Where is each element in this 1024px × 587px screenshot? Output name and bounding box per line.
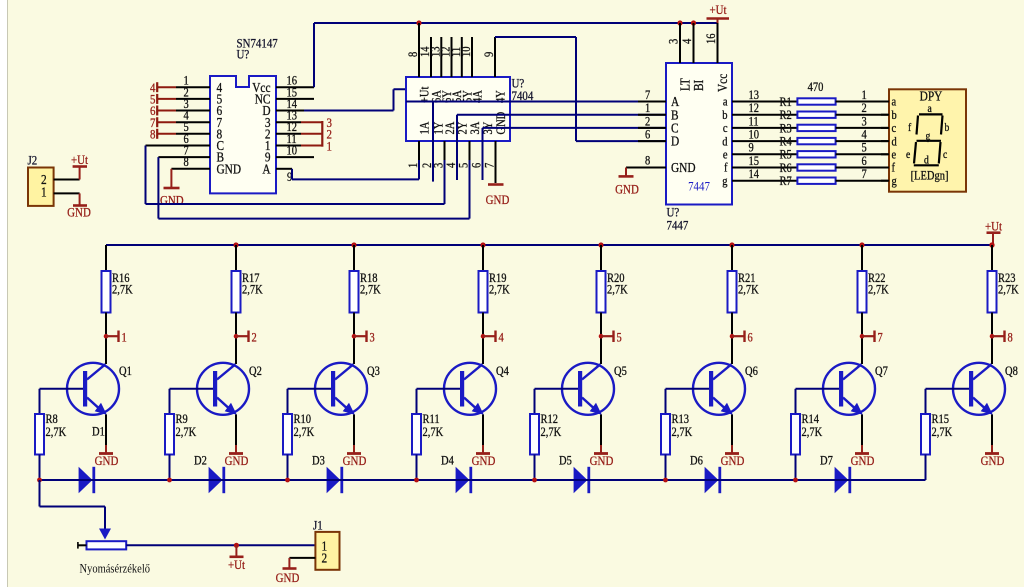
segment a xyxy=(919,113,943,115)
svg-text:7: 7 xyxy=(862,168,867,181)
wire R15 to diode row xyxy=(925,455,927,481)
svg-text:2A: 2A xyxy=(444,121,457,134)
wire R17 to Q2 collector xyxy=(235,313,237,365)
svg-text:7447: 7447 xyxy=(667,218,689,233)
svg-text:4: 4 xyxy=(499,332,504,345)
wire potentiometer to J1 pin1 xyxy=(126,544,315,546)
IC U? 7404 xyxy=(406,77,510,141)
svg-text:10: 10 xyxy=(287,145,298,158)
wire R19 to Q4 collector xyxy=(482,313,484,365)
svg-text:5: 5 xyxy=(862,142,867,155)
svg-text:Q8: Q8 xyxy=(1005,365,1018,378)
svg-text:3: 3 xyxy=(668,39,681,44)
pin 7 SN74147 B xyxy=(158,156,210,158)
wire Q5 emitter to GND xyxy=(600,415,602,446)
wire R10 to diode row xyxy=(287,455,289,481)
svg-text:13: 13 xyxy=(749,89,760,102)
svg-text:a: a xyxy=(928,104,933,116)
svg-text:b: b xyxy=(892,109,897,122)
wire Q1 emitter to GND xyxy=(105,415,107,446)
junction diode row column 3 xyxy=(285,478,290,483)
svg-text:2: 2 xyxy=(645,116,650,129)
ground GND at Q2 xyxy=(235,445,237,454)
svg-text:Q1: Q1 xyxy=(119,365,132,378)
pin 1 7447 B xyxy=(638,114,666,116)
pin 2 7404 bottom xyxy=(432,141,434,160)
svg-text:8: 8 xyxy=(645,155,650,168)
resistor R20 2,7K xyxy=(597,271,606,313)
svg-text:b: b xyxy=(945,122,950,134)
svg-text:4: 4 xyxy=(862,129,867,142)
pin 7 7404 bottom xyxy=(495,141,497,160)
svg-text:f: f xyxy=(724,162,728,175)
pin 11 SN74147 xyxy=(276,145,301,147)
wire R22 to Q7 collector xyxy=(861,313,863,365)
wire 7404 pin6 to 7447 C xyxy=(482,128,484,180)
svg-text:R9: R9 xyxy=(176,413,188,426)
svg-text:D4: D4 xyxy=(441,455,454,468)
pin 12 7447 b wire to R2 xyxy=(732,114,797,116)
pin e DPY xyxy=(881,153,889,155)
svg-text:R8: R8 xyxy=(46,413,58,426)
svg-text:d: d xyxy=(722,136,727,149)
transistor Q8 xyxy=(953,363,1005,415)
resistor R6 470 xyxy=(797,164,835,170)
segment c xyxy=(939,142,941,164)
svg-text:Q2: Q2 xyxy=(249,365,262,378)
svg-text:a: a xyxy=(892,96,897,109)
resistor R5 470 xyxy=(797,151,835,157)
wire 7404 pin2 to 7447 A xyxy=(432,102,434,182)
pin 6 7447 D xyxy=(638,140,666,142)
svg-text:GND: GND xyxy=(671,160,696,175)
svg-text:2,7K: 2,7K xyxy=(423,426,444,439)
wire R14 to diode row xyxy=(795,455,797,481)
pin 2 SN74147 (input 5) xyxy=(176,98,210,100)
resistor R14 2,7K xyxy=(795,389,797,414)
resistor R22 2,7K xyxy=(858,271,867,313)
pin 12 SN74147 xyxy=(276,133,301,135)
svg-text:Q5: Q5 xyxy=(614,365,627,378)
junction diode row column 5 xyxy=(532,478,537,483)
wire diode row to potentiometer wiper xyxy=(39,480,41,507)
IC U? 7447 xyxy=(666,63,732,205)
svg-text:8: 8 xyxy=(1008,332,1013,345)
pin 13 SN74147 xyxy=(276,121,301,123)
svg-text:7447: 7447 xyxy=(688,179,710,194)
segment d xyxy=(914,164,939,166)
svg-text:3: 3 xyxy=(862,116,867,129)
transistor Q3 xyxy=(315,363,367,415)
wire R5 to DPY e xyxy=(836,153,889,155)
wire R1 to DPY a xyxy=(836,101,889,103)
ground GND at 7447 pin8 xyxy=(625,168,627,177)
svg-text:U?: U? xyxy=(237,47,250,62)
svg-text:1: 1 xyxy=(645,102,650,115)
resistor R16 2,7K xyxy=(102,271,111,313)
segment f xyxy=(917,116,919,135)
svg-text:3: 3 xyxy=(433,163,446,168)
power +Ut at J2 xyxy=(79,167,81,180)
svg-text:7: 7 xyxy=(645,89,650,102)
pin 8 7404 top xyxy=(418,23,420,77)
svg-text:g: g xyxy=(892,175,897,188)
segment g xyxy=(917,140,942,142)
junction rail column 7 xyxy=(859,242,864,247)
svg-text:1A: 1A xyxy=(419,121,432,134)
ground GND at Q1 xyxy=(105,445,107,454)
svg-text:R5: R5 xyxy=(780,149,792,162)
pin 14 7404 top xyxy=(430,37,432,77)
pin 15 SN74147 xyxy=(276,98,314,100)
svg-text:GND: GND xyxy=(343,453,367,468)
port tick 3 xyxy=(352,334,357,339)
pin 8 SN74147 GND xyxy=(171,168,210,170)
svg-text:6: 6 xyxy=(748,332,753,345)
pin 4 7447 BI xyxy=(693,23,695,63)
svg-text:2,7K: 2,7K xyxy=(868,284,889,297)
pin 15 7447 f wire to R6 xyxy=(732,167,797,169)
resistor R18 2,7K xyxy=(350,271,359,313)
svg-text:Vcc: Vcc xyxy=(715,73,730,92)
resistor R23 2,7K xyxy=(988,271,997,313)
pin f DPY xyxy=(881,167,889,169)
wire R21 to Q6 collector xyxy=(731,313,733,365)
diode D3 xyxy=(314,479,327,481)
svg-text:GND: GND xyxy=(472,453,496,468)
svg-text:GND: GND xyxy=(981,453,1005,468)
svg-text:a: a xyxy=(723,96,728,109)
svg-text:2Y: 2Y xyxy=(457,121,470,134)
svg-text:R7: R7 xyxy=(780,175,792,188)
ground GND at J2 xyxy=(79,193,81,205)
wire rail to R23 xyxy=(991,245,993,271)
svg-text:BI: BI xyxy=(691,80,706,91)
svg-text:e: e xyxy=(906,149,911,161)
junction rail column 6 xyxy=(729,242,734,247)
junction rail column 2 xyxy=(233,242,238,247)
svg-text:GND: GND xyxy=(590,453,614,468)
svg-text:J1: J1 xyxy=(313,518,323,533)
svg-text:Q4: Q4 xyxy=(496,365,509,378)
junction diode row column 1 xyxy=(37,478,42,483)
wire J2 pin2 xyxy=(54,179,80,181)
port tick 2 xyxy=(234,334,239,339)
wire SN74147 D to 7404 xyxy=(304,110,394,112)
pin 16 SN74147 xyxy=(276,86,314,88)
junction on rail at 7404 pin8 xyxy=(416,20,421,25)
junction diode row column 7 xyxy=(793,478,798,483)
svg-text:6: 6 xyxy=(645,129,650,142)
svg-text:2,7K: 2,7K xyxy=(360,284,381,297)
resistor R12 2,7K xyxy=(534,389,536,414)
svg-text:R12: R12 xyxy=(541,413,559,426)
wire Q8 emitter to GND xyxy=(991,415,993,446)
pin 11 7404 top xyxy=(461,37,463,77)
svg-text:9: 9 xyxy=(749,142,754,155)
pin c DPY xyxy=(881,127,889,129)
svg-text:+Ut: +Ut xyxy=(71,152,89,167)
wire rail to R20 xyxy=(600,245,602,271)
pin b DPY xyxy=(881,114,889,116)
svg-text:2: 2 xyxy=(322,551,328,566)
svg-text:1: 1 xyxy=(41,185,47,200)
wire base Q2 to R9 xyxy=(170,388,214,390)
svg-text:14: 14 xyxy=(749,168,760,181)
junction on rail at 7447 LT xyxy=(677,20,682,25)
svg-text:R11: R11 xyxy=(423,413,440,426)
ground GND at Q6 xyxy=(731,445,733,454)
wire SN74147 A to 7404 pin1 xyxy=(291,169,293,180)
junction diode row column 6 xyxy=(663,478,668,483)
diode D5 xyxy=(561,479,574,481)
wire base Q6 to R13 xyxy=(666,388,710,390)
pin 11 7447 c wire to R3 xyxy=(732,127,797,129)
svg-text:8: 8 xyxy=(150,126,155,141)
svg-text:J2: J2 xyxy=(28,153,38,168)
pin 5 7404 bottom xyxy=(469,141,471,160)
wire 7404 pin4 to 7447 B xyxy=(456,115,458,180)
transistor Q1 xyxy=(67,363,119,415)
IC U? SN74147 xyxy=(210,76,276,193)
pin 9 SN74147 A xyxy=(276,168,292,170)
svg-text:R1: R1 xyxy=(780,96,792,109)
pin 14 7447 g wire to R7 xyxy=(732,180,797,182)
wire base Q8 to R15 xyxy=(926,388,970,390)
transistor Q2 xyxy=(197,363,249,415)
svg-text:2,7K: 2,7K xyxy=(176,426,197,439)
pin 12 7404 top xyxy=(451,37,453,77)
pin 9 7404 top xyxy=(494,37,496,77)
wire base Q3 to R10 xyxy=(288,388,332,390)
junction rail column 3 xyxy=(351,242,356,247)
wire R9 to diode row xyxy=(169,455,171,481)
port tick 5 xyxy=(599,334,604,339)
wire rail to R18 xyxy=(353,245,355,271)
svg-text:g: g xyxy=(722,175,727,188)
svg-text:1: 1 xyxy=(122,332,127,345)
svg-text:+Ut: +Ut xyxy=(709,2,727,17)
svg-text:3A: 3A xyxy=(469,121,482,134)
svg-text:R2: R2 xyxy=(780,109,792,122)
pin 4 SN74147 (input 7) xyxy=(176,121,210,123)
pin 8 7447 GND xyxy=(626,167,666,169)
svg-text:R3: R3 xyxy=(780,123,792,136)
port tick 4 xyxy=(481,334,486,339)
resistor R17 2,7K xyxy=(232,271,241,313)
wire J2 pin1 xyxy=(54,192,80,194)
power +Ut top xyxy=(717,19,719,24)
svg-text:c: c xyxy=(892,122,897,135)
svg-text:GND: GND xyxy=(486,192,510,207)
ground GND at Q5 xyxy=(600,445,602,454)
pin 1 7404 bottom xyxy=(418,141,420,160)
svg-text:c: c xyxy=(723,122,728,135)
svg-text:D5: D5 xyxy=(559,455,572,468)
transistor Q6 xyxy=(693,363,745,415)
connector J2 xyxy=(28,168,54,206)
svg-text:5: 5 xyxy=(458,163,471,168)
wire R2 to DPY b xyxy=(836,114,889,116)
svg-text:12: 12 xyxy=(749,102,760,115)
junction on rail at 7447 BI xyxy=(691,20,696,25)
svg-text:2,7K: 2,7K xyxy=(242,284,263,297)
resistor R19 2,7K xyxy=(479,271,488,313)
port tick 7 xyxy=(860,334,865,339)
svg-text:16: 16 xyxy=(705,33,718,44)
wire base Q5 to R12 xyxy=(535,388,579,390)
svg-text:1: 1 xyxy=(862,89,867,102)
svg-text:Q6: Q6 xyxy=(745,365,758,378)
pin g DPY xyxy=(881,180,889,182)
diode D7 xyxy=(822,479,835,481)
potentiometer Nyomaserzekelo xyxy=(87,541,127,549)
wire Q6 emitter to GND xyxy=(731,415,733,446)
wire 7404 pin9 to 7447 D xyxy=(495,36,576,38)
svg-text:2,7K: 2,7K xyxy=(112,284,133,297)
pin 2 7447 C xyxy=(638,127,666,129)
svg-text:D7: D7 xyxy=(820,455,833,468)
svg-text:GND: GND xyxy=(217,161,242,176)
svg-text:2,7K: 2,7K xyxy=(489,284,510,297)
svg-text:9: 9 xyxy=(483,52,496,57)
wire base Q4 to R11 xyxy=(417,388,461,390)
svg-text:R14: R14 xyxy=(802,413,820,426)
wire R11 to diode row xyxy=(416,455,418,481)
svg-text:GND: GND xyxy=(721,453,745,468)
wire J1 pin2 to GND xyxy=(289,557,315,559)
svg-text:470: 470 xyxy=(808,81,824,94)
ground GND at Q3 xyxy=(353,445,355,454)
pin 3 7404 bottom xyxy=(444,141,446,160)
resistor R21 2,7K xyxy=(728,271,737,313)
segment b xyxy=(941,116,943,135)
wire rail to R17 xyxy=(235,245,237,271)
pin d DPY xyxy=(881,140,889,142)
pin 13 7404 top xyxy=(440,37,442,77)
pin 10 7447 d wire to R4 xyxy=(732,140,797,142)
pin 10 7404 top xyxy=(471,37,473,77)
svg-text:Q3: Q3 xyxy=(367,365,380,378)
svg-text:GND: GND xyxy=(95,453,119,468)
potentiometer wiper arrow xyxy=(99,529,111,540)
svg-text:c: c xyxy=(943,149,948,161)
wire R6 to DPY f xyxy=(836,167,889,169)
junction rail column 5 xyxy=(598,242,603,247)
wire R4 to DPY d xyxy=(836,140,889,142)
svg-text:GND: GND xyxy=(615,182,639,197)
ground GND at Q4 xyxy=(482,445,484,454)
svg-text:7: 7 xyxy=(878,332,883,345)
pin 14 SN74147 xyxy=(276,110,304,112)
svg-text:GND: GND xyxy=(851,453,875,468)
resistor R7 470 xyxy=(797,178,835,184)
svg-text:GND: GND xyxy=(276,570,300,585)
wire Q4 emitter to GND xyxy=(482,415,484,446)
svg-text:3: 3 xyxy=(370,332,375,345)
svg-text:A: A xyxy=(262,161,270,176)
wire rail to R19 xyxy=(482,245,484,271)
svg-text:D3: D3 xyxy=(312,455,325,468)
svg-text:2,7K: 2,7K xyxy=(998,284,1019,297)
pin 13 7447 a wire to R1 xyxy=(732,101,797,103)
wire R18 to Q3 collector xyxy=(353,313,355,365)
svg-text:f: f xyxy=(908,122,912,134)
diode D6 xyxy=(692,479,705,481)
svg-text:5: 5 xyxy=(617,332,622,345)
wire rail to R16 xyxy=(105,245,107,271)
wire SN74147 C to 7404 pin3 xyxy=(145,146,147,205)
svg-text:Q7: Q7 xyxy=(875,365,888,378)
diode D4 xyxy=(443,479,456,481)
svg-text:10: 10 xyxy=(749,129,760,142)
wire Q2 emitter to GND xyxy=(235,415,237,446)
power +Ut bottom xyxy=(234,543,239,548)
svg-text:4: 4 xyxy=(681,39,694,44)
display DPY LEDgn xyxy=(889,89,966,191)
svg-text:8: 8 xyxy=(184,156,189,169)
svg-text:+Ut: +Ut xyxy=(228,557,246,572)
svg-text:[LEDgn]: [LEDgn] xyxy=(911,170,949,183)
diode D2 xyxy=(196,479,209,481)
resistor R2 470 xyxy=(797,112,835,118)
wire SN74147 B to 7404 pin5 xyxy=(157,157,159,219)
wire Q3 emitter to GND xyxy=(353,415,355,446)
svg-text:2,7K: 2,7K xyxy=(46,426,67,439)
svg-text:2,7K: 2,7K xyxy=(607,284,628,297)
port tick 8 xyxy=(990,334,995,339)
svg-text:d: d xyxy=(892,136,897,149)
wire R20 to Q5 collector xyxy=(600,313,602,365)
wire rail to R22 xyxy=(861,245,863,271)
svg-text:2,7K: 2,7K xyxy=(932,426,953,439)
resistor R15 2,7K xyxy=(925,389,927,414)
svg-text:D: D xyxy=(671,134,679,149)
junction diode row column 2 xyxy=(167,478,172,483)
pin 3 SN74147 (input 6) xyxy=(176,110,210,112)
svg-text:2: 2 xyxy=(862,102,867,115)
ground GND at Q7 xyxy=(861,445,863,454)
svg-text:e: e xyxy=(892,149,897,162)
ground GND at Q8 xyxy=(991,445,993,454)
wire Q7 emitter to GND xyxy=(861,415,863,446)
svg-text:R10: R10 xyxy=(294,413,312,426)
svg-text:2: 2 xyxy=(252,332,257,345)
resistor R11 2,7K xyxy=(416,389,418,414)
svg-text:R13: R13 xyxy=(672,413,690,426)
net stubs 3 2 1 at SN74147 pins 13 12 11 xyxy=(321,121,323,147)
junction rail column 4 xyxy=(480,242,485,247)
svg-text:GND: GND xyxy=(160,193,184,208)
svg-text:R4: R4 xyxy=(780,136,792,149)
wire R23 to Q8 collector xyxy=(991,313,993,365)
pin a DPY xyxy=(881,101,889,103)
wire R13 to diode row xyxy=(665,455,667,481)
resistor R4 470 xyxy=(797,138,835,144)
transistor Q4 xyxy=(444,363,496,415)
svg-text:GND: GND xyxy=(225,453,249,468)
svg-text:R6: R6 xyxy=(780,162,792,175)
wire diode row xyxy=(40,479,926,481)
pin 3 7447 LT xyxy=(679,23,681,63)
svg-text:R15: R15 xyxy=(932,413,950,426)
resistor R3 470 xyxy=(797,125,835,131)
pin 1 SN74147 (input 4) xyxy=(176,86,210,88)
junction rail column 8 xyxy=(989,242,994,247)
diode D1 xyxy=(66,479,79,481)
svg-text:b: b xyxy=(722,109,727,122)
ground GND at J1 xyxy=(288,558,290,569)
